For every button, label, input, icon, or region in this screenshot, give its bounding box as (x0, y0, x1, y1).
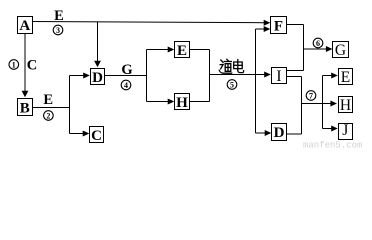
svg-text:2: 2 (46, 111, 50, 120)
svg-text:manfen5.com: manfen5.com (303, 141, 362, 150)
svg-text:4: 4 (124, 81, 128, 90)
svg-text:E: E (177, 43, 187, 59)
svg-text:C: C (27, 57, 37, 73)
svg-text:F: F (274, 19, 283, 35)
svg-text:J: J (342, 122, 348, 139)
svg-text:E: E (43, 92, 53, 108)
svg-text:D: D (92, 70, 103, 86)
svg-text:E: E (54, 8, 64, 24)
svg-text:D: D (274, 125, 285, 141)
svg-text:B: B (20, 100, 30, 116)
svg-text:I: I (276, 68, 281, 85)
svg-text:1: 1 (12, 60, 16, 69)
svg-text:G: G (121, 62, 132, 78)
svg-text:G: G (335, 42, 346, 59)
svg-text:A: A (19, 18, 30, 34)
svg-text:3: 3 (56, 26, 60, 35)
svg-text:H: H (340, 97, 351, 114)
svg-text:E: E (341, 69, 350, 86)
svg-text:6: 6 (316, 39, 320, 48)
svg-text:H: H (176, 95, 188, 111)
svg-text:C: C (91, 128, 102, 144)
svg-text:5: 5 (230, 80, 234, 89)
svg-text:7: 7 (309, 91, 313, 100)
